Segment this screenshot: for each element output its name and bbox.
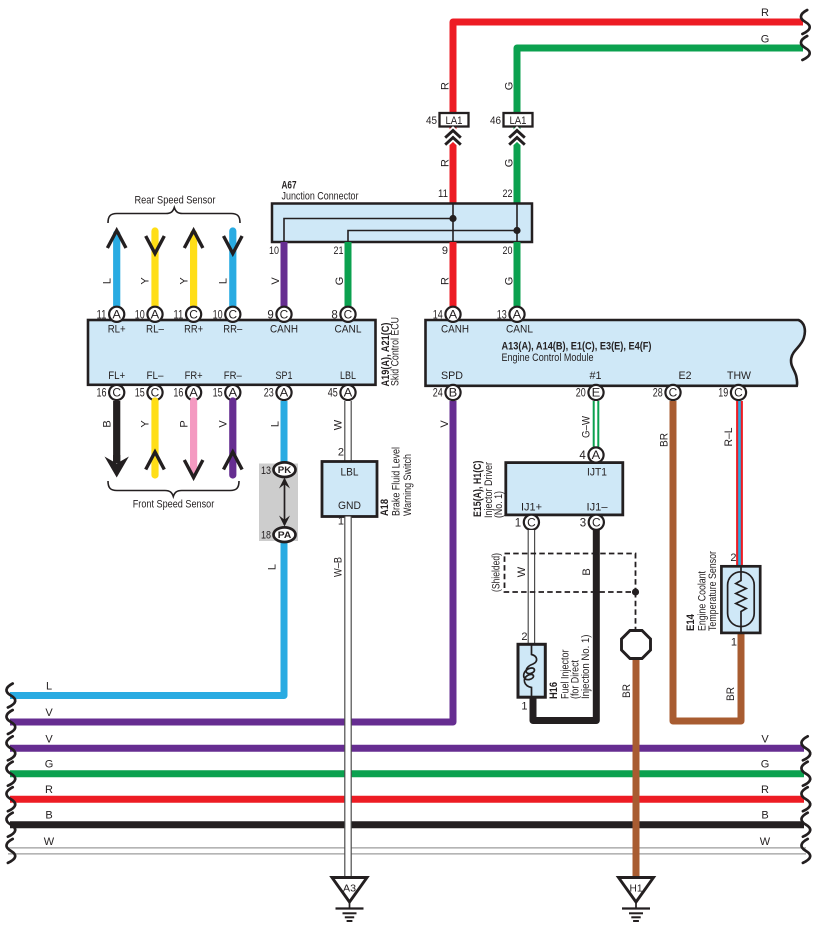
svg-text:14: 14 [433, 309, 443, 321]
svg-text:W: W [760, 836, 771, 848]
left edge break symbols [6, 684, 15, 708]
injector driver E15(A) H1(C) box [506, 463, 623, 515]
wire BR (brown) octagon to ground H1 [633, 656, 640, 877]
svg-text:20: 20 [576, 388, 586, 400]
shorting connector gray area [259, 464, 298, 542]
wire G (green) A67 pin 21 to skid ECU CANL [345, 242, 352, 307]
wire R (red) to LA1 45 and off-page right [453, 22, 803, 114]
svg-text:G: G [334, 277, 346, 286]
svg-text:PA: PA [278, 530, 292, 541]
svg-text:RR+: RR+ [184, 323, 203, 335]
pin 15 (C) [147, 385, 162, 400]
svg-text:P: P [178, 420, 190, 427]
pin 11 (A) [109, 307, 124, 322]
wire G (green) full-width bus [10, 770, 804, 777]
engine control module box [426, 320, 805, 386]
svg-text:Y: Y [178, 277, 190, 285]
wire L (blue) from SP1/PA down-left to page edge [10, 541, 284, 696]
svg-text:LA1: LA1 [446, 115, 463, 127]
svg-text:Warning Switch: Warning Switch [402, 454, 414, 516]
pin 4 (A) [588, 447, 603, 462]
svg-text:9: 9 [267, 309, 273, 321]
svg-text:FL+: FL+ [108, 370, 125, 382]
svg-text:E: E [592, 388, 601, 400]
svg-text:C: C [280, 310, 289, 322]
svg-text:L: L [266, 564, 278, 570]
svg-text:C: C [344, 310, 353, 322]
svg-text:IJ1–: IJ1– [587, 502, 609, 514]
svg-text:W: W [44, 836, 55, 848]
svg-text:2: 2 [730, 552, 736, 564]
pin 8 (C) [340, 307, 355, 322]
svg-text:A: A [592, 450, 601, 462]
pin 45 (A) [340, 385, 355, 400]
svg-text:A3: A3 [343, 883, 356, 895]
svg-text:13: 13 [261, 465, 271, 477]
svg-text:V: V [45, 733, 53, 745]
svg-text:A: A [449, 310, 458, 322]
svg-text:E14: E14 [685, 613, 697, 631]
svg-text:SP1: SP1 [276, 370, 293, 382]
svg-text:B: B [449, 388, 458, 400]
svg-text:3: 3 [580, 517, 586, 529]
pin 24 (B) [445, 385, 460, 400]
brake fluid level warning switch A18 box [322, 462, 377, 517]
E14 resistor element [728, 572, 755, 627]
svg-text:H16: H16 [548, 682, 560, 699]
front speed sensor arrow FR- (violet, up) [229, 401, 236, 475]
svg-text:E2: E2 [679, 370, 692, 382]
svg-text:45: 45 [328, 388, 338, 400]
pin 14 (A) [445, 307, 460, 322]
skid control ECU A19(A) A21(C) box [88, 320, 376, 385]
pin 16 (C) [109, 385, 124, 400]
rear speed sensor arrow RL+ (blue, up) [113, 234, 120, 307]
svg-text:C: C [592, 518, 601, 530]
svg-text:R: R [439, 82, 451, 90]
rear speed sensor arrow RR+ (yellow, up) [190, 234, 197, 307]
svg-text:1: 1 [731, 637, 737, 649]
pin 10 (C) [225, 307, 240, 322]
svg-text:15: 15 [213, 388, 223, 400]
wire B (black) IJ1- down around to H16 pin 1 [533, 530, 596, 721]
svg-text:R: R [761, 7, 769, 19]
svg-text:SPD: SPD [441, 370, 463, 382]
svg-text:Skid Control ECU: Skid Control ECU [389, 317, 401, 386]
svg-text:11: 11 [438, 188, 448, 200]
rear speed sensor arrow RL- (yellow, down) [151, 231, 158, 307]
svg-text:C: C [734, 388, 743, 400]
wire W (white) IJ1+ down to fuel injector H16 [528, 530, 536, 645]
wire R (red) full-width bus [10, 796, 804, 803]
svg-text:A: A [112, 310, 121, 322]
ground H1 [619, 878, 654, 903]
svg-text:Junction Connector: Junction Connector [282, 191, 359, 203]
svg-text:L: L [269, 421, 281, 427]
svg-text:11: 11 [173, 309, 183, 321]
pin 16 (A) [186, 385, 201, 400]
svg-text:B: B [45, 810, 52, 822]
svg-text:24: 24 [433, 388, 443, 400]
svg-text:28: 28 [653, 388, 663, 400]
svg-text:G: G [45, 759, 54, 771]
svg-text:45: 45 [426, 115, 437, 127]
svg-text:PK: PK [278, 465, 292, 476]
wire V (violet) full-width bus [10, 745, 804, 752]
pin 28 (C) [665, 385, 680, 400]
wire V (violet) A67 pin 10 to skid ECU CANH [281, 242, 288, 307]
connector 45 LA1 [440, 113, 469, 127]
svg-text:1: 1 [521, 701, 527, 713]
svg-text:46: 46 [490, 115, 501, 127]
svg-text:G: G [503, 82, 515, 91]
A67 internal wire pin 22 to pin 20 [516, 204, 518, 243]
injector coil [524, 644, 537, 697]
svg-text:B: B [581, 568, 593, 575]
pin 1 (C) [524, 515, 539, 530]
svg-text:16: 16 [97, 388, 107, 400]
right edge break symbols [801, 736, 810, 760]
svg-text:19: 19 [718, 388, 728, 400]
svg-text:16: 16 [173, 388, 183, 400]
wire R (red) LA1 to junction connector A67 pin 11 [450, 126, 457, 204]
svg-text:GND: GND [338, 500, 361, 512]
svg-text:Front Speed Sensor: Front Speed Sensor [133, 499, 215, 511]
pin 13 (A) [509, 307, 524, 322]
svg-text:BR: BR [621, 684, 633, 698]
svg-text:FR–: FR– [224, 370, 243, 382]
svg-text:10: 10 [135, 309, 145, 321]
svg-text:V: V [439, 420, 451, 428]
svg-text:C: C [189, 310, 198, 322]
front speed sensor arrow FL+ (black, down) [113, 401, 120, 463]
svg-text:4: 4 [579, 450, 586, 462]
svg-text:1: 1 [515, 517, 521, 529]
svg-text:13: 13 [497, 309, 507, 321]
pin 10 (A) [147, 307, 162, 322]
svg-text:V: V [45, 707, 53, 719]
svg-text:22: 22 [503, 188, 513, 200]
top break symbols [801, 10, 810, 34]
svg-text:G–W: G–W [580, 415, 592, 438]
front speed sensor arrow FL- (yellow, up) [151, 401, 158, 475]
svg-text:(Shielded): (Shielded) [490, 553, 502, 592]
svg-text:Engine Control Module: Engine Control Module [502, 352, 594, 364]
svg-text:23: 23 [264, 388, 274, 400]
pin 20 (E) [588, 385, 603, 400]
svg-text:2: 2 [521, 631, 527, 643]
svg-text:THW: THW [727, 370, 752, 382]
pin 3 (C) [589, 515, 604, 530]
wire W-B (white-black) A18 GND down to ground A3 [344, 517, 352, 878]
svg-text:G: G [503, 277, 515, 286]
svg-text:21: 21 [334, 245, 344, 257]
svg-text:W–B: W–B [332, 557, 344, 577]
svg-text:FL–: FL– [147, 370, 165, 382]
svg-text:A: A [151, 310, 160, 322]
svg-text:11: 11 [97, 309, 107, 321]
svg-text:CANH: CANH [270, 323, 298, 335]
connector 18 PA [274, 527, 296, 542]
wire W (white) skid LBL down to A18 [344, 401, 352, 461]
svg-text:R: R [439, 277, 451, 285]
svg-text:RL+: RL+ [108, 323, 126, 335]
fuel injector H16 box [518, 644, 545, 697]
svg-text:A: A [513, 310, 522, 322]
pin 19 (C) [731, 385, 746, 400]
svg-text:L: L [46, 681, 52, 693]
svg-text:G: G [761, 759, 770, 771]
mating arrow between PK and PA [284, 479, 286, 525]
wire G-W (green-white) ECM #1 to injector driver IJT1 [593, 401, 600, 449]
wire L (blue) skid SP1 down to PK [281, 401, 288, 464]
svg-text:Y: Y [140, 277, 152, 285]
svg-text:LA1: LA1 [510, 115, 527, 127]
engine coolant temperature sensor E14 box [721, 566, 760, 633]
svg-text:G: G [761, 34, 770, 46]
junction node on green CAN wire [513, 227, 520, 234]
shield octagon ground symbol [622, 631, 651, 659]
svg-text:G: G [503, 159, 515, 168]
svg-text:20: 20 [503, 245, 513, 257]
A67 internal bus wire pin 21 to pin 20 [348, 231, 517, 243]
svg-text:C: C [669, 388, 678, 400]
svg-text:CANL: CANL [335, 323, 362, 335]
ground A3 [332, 878, 367, 903]
svg-text:A: A [280, 388, 289, 400]
front speed sensor brace [108, 481, 239, 497]
svg-text:A18: A18 [379, 499, 391, 516]
svg-text:W: W [332, 419, 344, 430]
svg-text:R: R [439, 159, 451, 167]
svg-text:R–L: R–L [723, 428, 735, 447]
svg-text:V: V [761, 733, 769, 745]
wire G (green) to LA1 46 and off-page right [517, 48, 803, 114]
svg-text:Injection No. 1): Injection No. 1) [580, 635, 592, 700]
wire V (violet) from ECM SPD down-left to page edge [10, 401, 453, 722]
shield dashed box [505, 554, 636, 593]
shield junction node [632, 588, 639, 595]
svg-text:C: C [112, 388, 121, 400]
svg-text:Y: Y [140, 420, 152, 428]
svg-text:L: L [218, 278, 230, 284]
svg-text:C: C [527, 518, 536, 530]
rear speed sensor arrow RR- (blue, down) [229, 231, 236, 307]
svg-text:#1: #1 [590, 370, 602, 382]
rear speed sensor brace [108, 208, 240, 224]
svg-text:(No. 1): (No. 1) [493, 491, 505, 518]
connector 46 LA1 [504, 113, 533, 127]
svg-text:L: L [101, 278, 113, 284]
svg-text:RR–: RR– [223, 323, 243, 335]
junction connector A67 box [272, 204, 532, 243]
wire R (red) A67 pin 9 to ECM CANH [450, 242, 457, 307]
A67 internal bus wire pin 10 to pin 9 [284, 219, 453, 243]
wire W (white) full-width bus [8, 847, 806, 854]
wire BR (brown) ECM E2 down to E14 pin 1 [673, 401, 741, 721]
svg-text:9: 9 [442, 245, 448, 257]
svg-text:B: B [101, 420, 113, 427]
svg-text:C: C [229, 310, 238, 322]
dashed wire shield to octagon ground [635, 592, 637, 629]
svg-text:CANL: CANL [506, 323, 533, 335]
svg-text:8: 8 [331, 309, 337, 321]
wire G (green) LA1 to junction connector A67 pin 22 [514, 126, 521, 204]
wire G (green) A67 pin 20 to ECM CANL [514, 242, 521, 307]
svg-text:V: V [270, 277, 282, 285]
svg-text:BR: BR [658, 433, 670, 447]
svg-text:BR: BR [725, 687, 737, 701]
A67 internal wire pin 11 to pin 9 [452, 204, 454, 243]
svg-text:1: 1 [338, 516, 344, 528]
junction node on red CAN wire [449, 215, 456, 222]
svg-text:A: A [344, 388, 353, 400]
svg-text:Brake Fluid Level: Brake Fluid Level [390, 447, 402, 516]
svg-text:W: W [516, 566, 528, 577]
svg-text:B: B [761, 810, 768, 822]
svg-text:V: V [218, 420, 230, 428]
wire B (black) full-width bus [10, 821, 804, 828]
svg-text:2: 2 [338, 447, 344, 459]
svg-text:R: R [45, 784, 53, 796]
svg-text:FR+: FR+ [185, 370, 203, 382]
svg-text:LBL: LBL [341, 467, 359, 479]
svg-text:IJ1+: IJ1+ [521, 502, 542, 514]
svg-text:10: 10 [213, 309, 223, 321]
connector 13 PK [274, 462, 296, 477]
svg-text:LBL: LBL [340, 370, 356, 382]
svg-text:Rear Speed Sensor: Rear Speed Sensor [135, 195, 216, 207]
svg-text:Temperature Sensor: Temperature Sensor [707, 551, 719, 631]
svg-text:10: 10 [269, 245, 279, 257]
wire R-L (red-blue) ECM THW to E14 pin 2 [736, 401, 743, 567]
pin 23 (A) [276, 385, 291, 400]
pin 15 (A) [225, 385, 240, 400]
svg-text:RL–: RL– [146, 323, 165, 335]
svg-text:15: 15 [135, 388, 145, 400]
svg-text:CANH: CANH [441, 323, 469, 335]
svg-text:H1: H1 [630, 883, 643, 895]
svg-text:IJT1: IJT1 [587, 467, 607, 479]
pin 11 (C) [186, 307, 201, 322]
pin 9 (C) [276, 307, 291, 322]
svg-text:18: 18 [261, 530, 271, 542]
front speed sensor arrow FR+ (pink, down) [190, 401, 197, 470]
svg-text:A13(A), A14(B), E1(C), E3(E),: A13(A), A14(B), E1(C), E3(E), E4(F) [502, 341, 652, 353]
svg-text:R: R [761, 784, 769, 796]
